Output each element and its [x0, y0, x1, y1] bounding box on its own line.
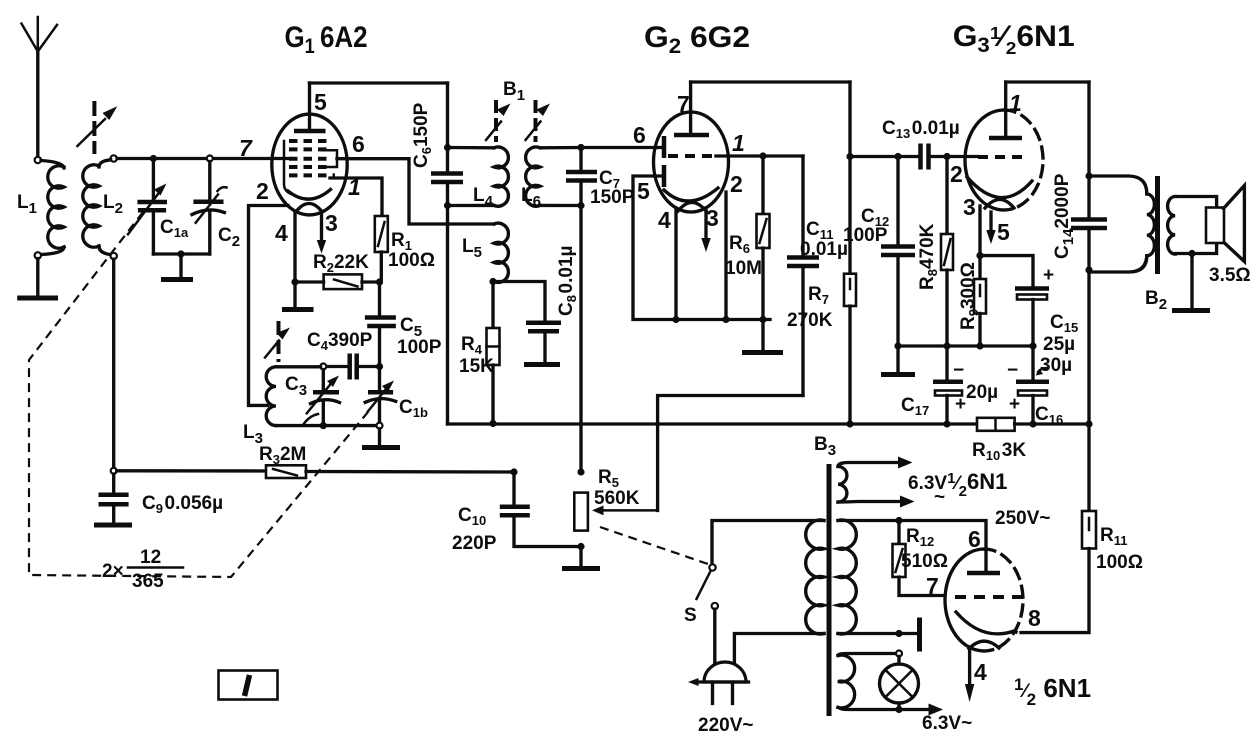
node R5 top [577, 468, 584, 475]
B3 primary winding [712, 520, 824, 676]
node bus pin4 [672, 316, 679, 323]
B3 heater winding 6.3V 1/2 6N1 [838, 457, 915, 508]
tube 1/2 6N1 envelope half-dashed [945, 549, 1023, 651]
node C10 top [510, 468, 517, 475]
svg-text:+: + [955, 394, 966, 415]
svg-text:~: ~ [934, 487, 945, 508]
transformer B3 core [827, 464, 832, 716]
svg-text:270K: 270K [787, 310, 833, 331]
svg-text:3: 3 [963, 194, 976, 220]
capacitor C10 [500, 472, 581, 547]
svg-text:25µ: 25µ [1043, 334, 1075, 355]
node R2 left / pin4 [291, 278, 298, 285]
capacitor C3 (padder, variable) [303, 370, 340, 426]
capacitor C15 electrolytic [980, 256, 1049, 346]
tube2 grid row pin7 [955, 595, 1023, 599]
node bus y346 left [894, 342, 901, 349]
svg-text:−: − [1007, 360, 1018, 381]
B3 pilot winding 6.3V [838, 654, 896, 710]
potentiometer R5 [574, 493, 657, 531]
svg-text:R9300Ω: R9300Ω [958, 262, 981, 330]
node bus right corner [1085, 420, 1092, 427]
node R4 bottom on bus [489, 420, 496, 427]
node R5 bottom / C10 [577, 543, 584, 550]
svg-text:4: 4 [658, 207, 671, 233]
ground (R5) [562, 547, 600, 569]
svg-text:G1 6A2: G1 6A2 [285, 20, 368, 58]
tube2 anode pin6 [967, 571, 1000, 576]
svg-text:2×: 2× [102, 561, 124, 582]
capacitor C14 [1071, 82, 1107, 424]
node B2 top [1085, 172, 1092, 179]
tube G2 anode pin7 [674, 82, 709, 135]
coil L5 [494, 223, 508, 282]
svg-text:+: + [1043, 265, 1054, 286]
svg-text:5: 5 [314, 89, 327, 115]
L2 tuning-slug symbol [77, 101, 117, 154]
chassis bar [899, 618, 920, 652]
wire C1a-C2 bottom rail [153, 252, 209, 255]
node L5 bottom / R4 top [489, 278, 496, 285]
svg-text:G2 6G2: G2 6G2 [644, 20, 750, 58]
switch S [697, 564, 719, 676]
svg-text:5: 5 [637, 178, 650, 204]
node C2 top [207, 156, 213, 162]
ground (G2 bus) [742, 320, 783, 353]
capacitor C16 electrolytic [1016, 346, 1049, 424]
coil L4 [448, 147, 509, 206]
node R2 right / R1 bottom [376, 278, 383, 285]
speaker [1206, 186, 1244, 262]
svg-text:100Ω: 100Ω [1096, 552, 1143, 573]
heater pin3 arrow [317, 213, 326, 254]
resistor R7 [844, 82, 856, 424]
wire G1 top B+ [310, 81, 448, 84]
svg-text:150P: 150P [590, 187, 635, 208]
svg-text:S: S [684, 605, 697, 626]
svg-text:0.01µ: 0.01µ [800, 239, 848, 260]
node L3 bottom [320, 422, 327, 429]
dashed link R5 to switch S [600, 527, 708, 564]
heater tube2 pin4 arrow [965, 650, 974, 702]
wire G2 pin1 grid out [716, 154, 803, 157]
node cathode junction [976, 252, 983, 259]
wire G1 pin1 to R1 [330, 178, 382, 216]
svg-text:3: 3 [706, 205, 719, 231]
svg-text:6: 6 [968, 526, 981, 552]
node rail center [177, 250, 184, 257]
transformer B2 secondary [1168, 197, 1217, 255]
tube2 cathode [956, 612, 1016, 649]
resistor R1 [375, 216, 388, 282]
ground (C1b) [362, 429, 400, 448]
ground (cathode R2) [282, 282, 314, 310]
node lamp top [896, 651, 902, 657]
tube G3 cathode [967, 177, 1032, 208]
resistor R9 [974, 256, 986, 346]
node R7 bottom on bus [846, 420, 853, 427]
svg-text:C9 0.056µ: C9 0.056µ [142, 493, 223, 516]
capacitor C4 [326, 354, 377, 380]
node C12 top [894, 153, 901, 160]
tube G2 envelope [654, 112, 729, 212]
tube G1 cathode [288, 190, 331, 212]
heater G3 pin5 arrow [986, 212, 995, 244]
transformer B2 primary [1089, 176, 1154, 272]
node R9 bottom [976, 342, 983, 349]
resistor R4 [487, 282, 500, 424]
svg-text:365: 365 [132, 571, 164, 592]
resistor R12 [893, 521, 946, 596]
wire L2 bottom to C9 junction [112, 259, 115, 467]
node C7 bottom [577, 202, 584, 209]
svg-text:12: 12 [140, 547, 161, 568]
capacitor C17 electrolytic [933, 346, 963, 424]
resistor R8 [941, 157, 953, 347]
svg-text:3: 3 [325, 210, 338, 236]
wire screen bus y346 [898, 344, 1033, 347]
svg-text:6: 6 [633, 122, 646, 148]
svg-text:2: 2 [730, 171, 743, 197]
svg-text:8: 8 [1028, 605, 1041, 631]
wire G2 top B+ [691, 80, 850, 83]
resistor R3 [117, 465, 514, 478]
capacitor C7 [566, 172, 597, 181]
tube G3 grid row [978, 155, 1028, 159]
node C7 top [577, 144, 584, 151]
node HV bottom chassis [895, 630, 902, 637]
heater G2 pin3 arrow [701, 208, 710, 252]
resistor R2 [295, 274, 380, 289]
node R8 top [943, 153, 950, 160]
svg-text:6.3V~: 6.3V~ [922, 713, 972, 734]
wire G2 pin4 [674, 208, 677, 320]
coil L2 [83, 155, 117, 259]
tube G2 cathode [664, 188, 718, 211]
wire C7 vertical long [579, 148, 582, 473]
svg-text:C13 0.01µ: C13 0.01µ [882, 118, 960, 141]
svg-text:100P: 100P [397, 337, 442, 358]
dashed gang link C1a-C1b [29, 212, 368, 577]
node R8 bottom [943, 342, 950, 349]
svg-text:250V~: 250V~ [995, 508, 1050, 529]
resistor R6 [757, 156, 770, 320]
wire G1 pin2 to L3 [249, 206, 289, 406]
antenna [22, 17, 58, 157]
svg-text:15K: 15K [459, 356, 494, 377]
label G3 1/2 6N1 [953, 19, 1075, 58]
tube G3 envelope half-dashed [965, 110, 1043, 210]
node C6 bottom [444, 202, 451, 209]
capacitor C11 [787, 156, 819, 396]
svg-text:20µ: 20µ [966, 382, 998, 403]
pilot lamp [880, 657, 944, 716]
mains plug [688, 662, 749, 704]
node C17 bottom on bus [943, 420, 950, 427]
svg-text:2: 2 [256, 178, 269, 204]
svg-text:1: 1 [732, 130, 745, 156]
label G1 6A2 [285, 20, 368, 58]
capacitor C2 (trimmer) [192, 162, 227, 255]
node R6 top [759, 152, 766, 159]
svg-text:C6150P: C6150P [411, 102, 434, 168]
transformer B2 core [1155, 176, 1160, 274]
gang label 2x12/365 [102, 547, 183, 592]
capacitor C12 [881, 157, 915, 347]
capacitor C8 [493, 282, 561, 365]
svg-text:+: + [1009, 394, 1020, 415]
svg-text:30µ: 30µ [1040, 355, 1072, 376]
B3 HV winding 250V [838, 520, 986, 634]
ground (C1a/C2) [161, 254, 193, 280]
tube G2 grid row [668, 154, 716, 158]
node C6 top [444, 144, 451, 151]
svg-text:−: − [953, 360, 964, 381]
node bus R6 [759, 316, 766, 323]
coil L1 [35, 157, 64, 259]
svg-text:10M: 10M [725, 258, 762, 279]
wire G3 cathode pin3 [978, 206, 981, 256]
tube G1 envelope [272, 114, 347, 215]
B1 tuning-slug symbols [486, 100, 550, 142]
tube G3 anode pin1 [989, 82, 1022, 138]
svg-text:C4390P: C4390P [307, 330, 373, 353]
node R12 top [895, 517, 902, 524]
capacitor C1a (variable) [128, 159, 167, 255]
capacitor C9 [94, 474, 132, 525]
wire G2 grid feed [581, 146, 656, 149]
svg-text:R222K: R222K [313, 252, 369, 275]
svg-text:100P: 100P [843, 225, 888, 246]
wire G2 pin5 to bus [633, 176, 770, 320]
node lamp bottom [895, 706, 902, 713]
coil L3 [266, 367, 320, 426]
figure box f [219, 671, 278, 700]
node C5/C4/C1b [376, 363, 383, 370]
svg-text:4: 4 [974, 659, 987, 685]
svg-text:7: 7 [926, 573, 939, 599]
svg-text:3.5Ω: 3.5Ω [1209, 265, 1251, 286]
svg-text:6: 6 [352, 131, 365, 157]
svg-text:510Ω: 510Ω [901, 551, 948, 572]
node bus pin2 [722, 316, 729, 323]
wire main B- bus [448, 422, 978, 425]
svg-text:R32M: R32M [259, 444, 306, 467]
ground (speaker) [1172, 254, 1210, 311]
svg-text:100Ω: 100Ω [388, 250, 435, 271]
svg-text:220V~: 220V~ [698, 715, 753, 736]
capacitor C1b (variable) [365, 370, 396, 423]
resistor R10 [977, 418, 1089, 431]
coil L6 [526, 147, 581, 206]
svg-text:220P: 220P [452, 533, 497, 554]
wire G1 pin4 [293, 212, 296, 283]
wire L2 top to G1 grid [117, 157, 290, 160]
wire coupling line [850, 155, 917, 158]
svg-text:1: 1 [348, 174, 361, 200]
label G2 6G2 [644, 20, 750, 58]
svg-text:5: 5 [997, 219, 1010, 245]
wire G2 pin6 (already from C7) [656, 146, 662, 149]
node speaker ground [1188, 250, 1195, 257]
ground (C12 bus) [881, 346, 915, 375]
node C15/C16 [1029, 342, 1036, 349]
wire AVC from C11 to R5 wiper [658, 396, 803, 511]
svg-text:2: 2 [950, 161, 963, 187]
capacitor C5 [365, 282, 396, 367]
wire G3 top [1006, 80, 1089, 83]
node B2 bottom [1085, 266, 1092, 273]
node C1b bottom [377, 423, 383, 429]
node L3 top [320, 364, 326, 370]
svg-text:560K: 560K [594, 488, 640, 509]
svg-text:C8 0.01µ: C8 0.01µ [556, 246, 579, 316]
node C9/R3 [111, 468, 117, 474]
wire G2 pin2 [724, 192, 727, 320]
node R7 top feed [846, 153, 853, 160]
tube G2 diode plates [662, 136, 667, 187]
wire tank bottom [323, 424, 376, 427]
tube G1 grid rows [284, 141, 337, 194]
svg-text:7: 7 [239, 135, 253, 161]
resistor R11 [1021, 424, 1096, 633]
tube G1 anode bar pin5 [294, 83, 326, 131]
capacitor C13 [921, 144, 979, 170]
L3 tuning-slug symbol [265, 321, 290, 362]
svg-text:7: 7 [677, 91, 690, 117]
svg-text:1: 1 [1009, 90, 1022, 116]
node C16 bottom on bus [1029, 420, 1036, 427]
ground (antenna coil) [17, 259, 58, 298]
svg-text:R8470K: R8470K [917, 223, 940, 290]
wire G1 pin6 to IF [337, 159, 494, 224]
svg-text:4: 4 [275, 220, 288, 246]
capacitor C6 with IF primary feed [431, 83, 463, 424]
node C1a top [150, 155, 157, 162]
